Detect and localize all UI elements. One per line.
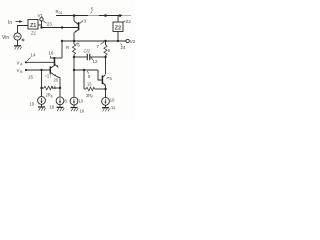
svg-text:~17: ~17 <box>45 74 53 79</box>
label 24 pointer <box>121 44 123 46</box>
wire node7 horizontal <box>62 40 126 42</box>
arrow In <box>16 21 21 23</box>
svg-text:R: R <box>66 45 69 50</box>
svg-text:V: V <box>17 61 20 66</box>
svg-text:10: 10 <box>110 98 115 103</box>
svg-text:2RP: 2RP <box>86 93 93 99</box>
capacitor C/2 <box>74 56 87 58</box>
label 16c <box>52 85 57 90</box>
ground I1 <box>38 106 45 108</box>
svg-text:9: 9 <box>88 74 91 79</box>
svg-text:6: 6 <box>78 43 81 48</box>
wire x62 down <box>61 41 63 58</box>
svg-text:20: 20 <box>54 78 59 83</box>
label 19 <box>30 102 35 107</box>
transistor T2 <box>49 66 51 74</box>
rail node5 <box>56 15 88 17</box>
label 12 pointer <box>91 58 93 60</box>
svg-text:Z2: Z2 <box>115 26 121 32</box>
current source I3 <box>70 97 78 105</box>
resistor 2Rp (horizontal) <box>84 88 86 90</box>
svg-text:19: 19 <box>30 102 35 107</box>
label 10a <box>79 99 84 104</box>
current source I4 <box>102 97 110 105</box>
svg-text:14: 14 <box>31 53 36 58</box>
label 5b pointer <box>107 77 110 79</box>
resistor (right, x105.5) <box>105 41 107 45</box>
label 9 pointer <box>88 71 89 74</box>
svg-text:12: 12 <box>93 59 98 64</box>
label Z2 pointer <box>123 21 125 22</box>
svg-text:13: 13 <box>87 82 92 87</box>
svg-text:11: 11 <box>111 105 116 110</box>
node dot <box>61 40 63 42</box>
label 2Rp <box>86 93 93 99</box>
current source I2 <box>59 88 61 97</box>
input VB <box>25 69 27 71</box>
input VA <box>25 61 27 63</box>
svg-text:V2: V2 <box>130 39 135 44</box>
svg-text:R01: R01 <box>56 9 63 15</box>
svg-text:Vin: Vin <box>2 35 9 41</box>
label 16 pointer <box>49 56 52 58</box>
label 20 <box>54 78 59 83</box>
node dot <box>40 26 42 28</box>
ground I3 <box>71 107 78 109</box>
svg-text:6: 6 <box>108 48 111 53</box>
svg-text:8: 8 <box>65 99 68 104</box>
svg-text:Z1: Z1 <box>30 23 36 29</box>
label 10b <box>110 98 115 103</box>
wire x105 down <box>105 57 107 74</box>
label 14 pointer <box>27 58 30 62</box>
svg-text:5: 5 <box>91 7 94 12</box>
wire Z1 output <box>38 24 42 26</box>
node dot <box>73 40 75 42</box>
svg-text:3: 3 <box>84 19 87 24</box>
label 17 <box>45 74 53 79</box>
svg-text:16: 16 <box>49 51 54 56</box>
node dot <box>117 40 119 42</box>
label 8 <box>65 99 68 104</box>
svg-text:15: 15 <box>28 75 33 80</box>
wire VA <box>26 61 54 63</box>
node dot <box>104 40 106 42</box>
svg-text:18: 18 <box>50 105 55 110</box>
node dot <box>73 56 75 58</box>
wire node9 horizontal <box>74 69 98 71</box>
svg-text:C/2: C/2 <box>84 49 91 54</box>
node dot <box>73 14 76 17</box>
wire corner node16 <box>50 57 62 59</box>
label 13 <box>87 82 92 87</box>
label R01 <box>56 9 63 15</box>
svg-text:5: 5 <box>110 76 113 81</box>
svg-text:V1: V1 <box>38 13 44 18</box>
wire Z2 down <box>117 32 119 42</box>
label 7 pointer <box>101 42 105 45</box>
ground (Vin) <box>14 45 21 47</box>
wire T1e-T2c <box>57 66 59 69</box>
wire VB <box>26 69 50 71</box>
svg-text:10: 10 <box>79 99 84 104</box>
wire VB drop <box>41 70 43 88</box>
svg-text:Z2: Z2 <box>126 19 132 24</box>
node dot <box>40 87 42 89</box>
svg-text:A: A <box>20 63 23 67</box>
label 18b <box>50 105 55 110</box>
box Z1 <box>28 20 38 30</box>
wire x84 down <box>83 70 85 89</box>
resistor R (left, x74) <box>73 41 75 44</box>
source Vin <box>14 33 21 40</box>
node dot <box>40 69 42 71</box>
label 3 pointer <box>80 21 83 24</box>
box Z2 <box>117 16 119 23</box>
label 16b <box>80 109 85 114</box>
label 2Re <box>46 93 53 99</box>
label 6 pointer <box>76 43 78 45</box>
svg-text:2RE: 2RE <box>46 93 53 99</box>
svg-text:7: 7 <box>97 44 100 49</box>
label Z1 below <box>30 31 37 36</box>
svg-text:B: B <box>20 70 23 74</box>
wire T2 emitter down <box>56 76 60 88</box>
label 15 <box>28 75 33 80</box>
svg-text:Z1: Z1 <box>30 31 37 36</box>
label Vin <box>2 35 9 41</box>
node dot <box>59 87 61 89</box>
wire x74 lower <box>73 57 75 97</box>
ground I2 <box>57 106 64 108</box>
node dot <box>119 14 122 17</box>
wire Vin to ground <box>17 40 19 45</box>
terminal V2 <box>126 39 129 42</box>
svg-text:24: 24 <box>121 45 127 50</box>
node dot <box>83 69 85 71</box>
transistor Qa <box>73 16 75 22</box>
wire V1 down <box>41 21 43 28</box>
wire Vin to Z1 <box>18 26 29 34</box>
node dot <box>104 88 106 90</box>
resistor 2Re (horizontal) <box>42 87 45 89</box>
terminal V1 <box>40 18 43 21</box>
wire node23 horizontal <box>42 27 79 29</box>
node dot <box>104 56 106 58</box>
wire x98 down to Qb base <box>98 70 102 80</box>
svg-text:23: 23 <box>47 22 53 27</box>
node 23 pointer <box>43 21 46 23</box>
label 11 <box>111 105 116 110</box>
node dot <box>61 26 63 28</box>
svg-text:16: 16 <box>80 109 85 114</box>
transistor T1 <box>54 59 56 66</box>
ground I4 <box>102 107 109 109</box>
transistor Qb <box>101 75 103 84</box>
node dot <box>104 14 107 17</box>
node dot <box>53 57 55 59</box>
wire Qb emitter down <box>105 86 107 98</box>
current source I1 <box>41 88 43 97</box>
label 5 pointer <box>91 12 93 14</box>
svg-text:In: In <box>8 20 12 26</box>
svg-text:V: V <box>17 68 20 73</box>
label plus <box>22 39 25 42</box>
label In <box>8 20 12 26</box>
node dot <box>73 69 75 71</box>
